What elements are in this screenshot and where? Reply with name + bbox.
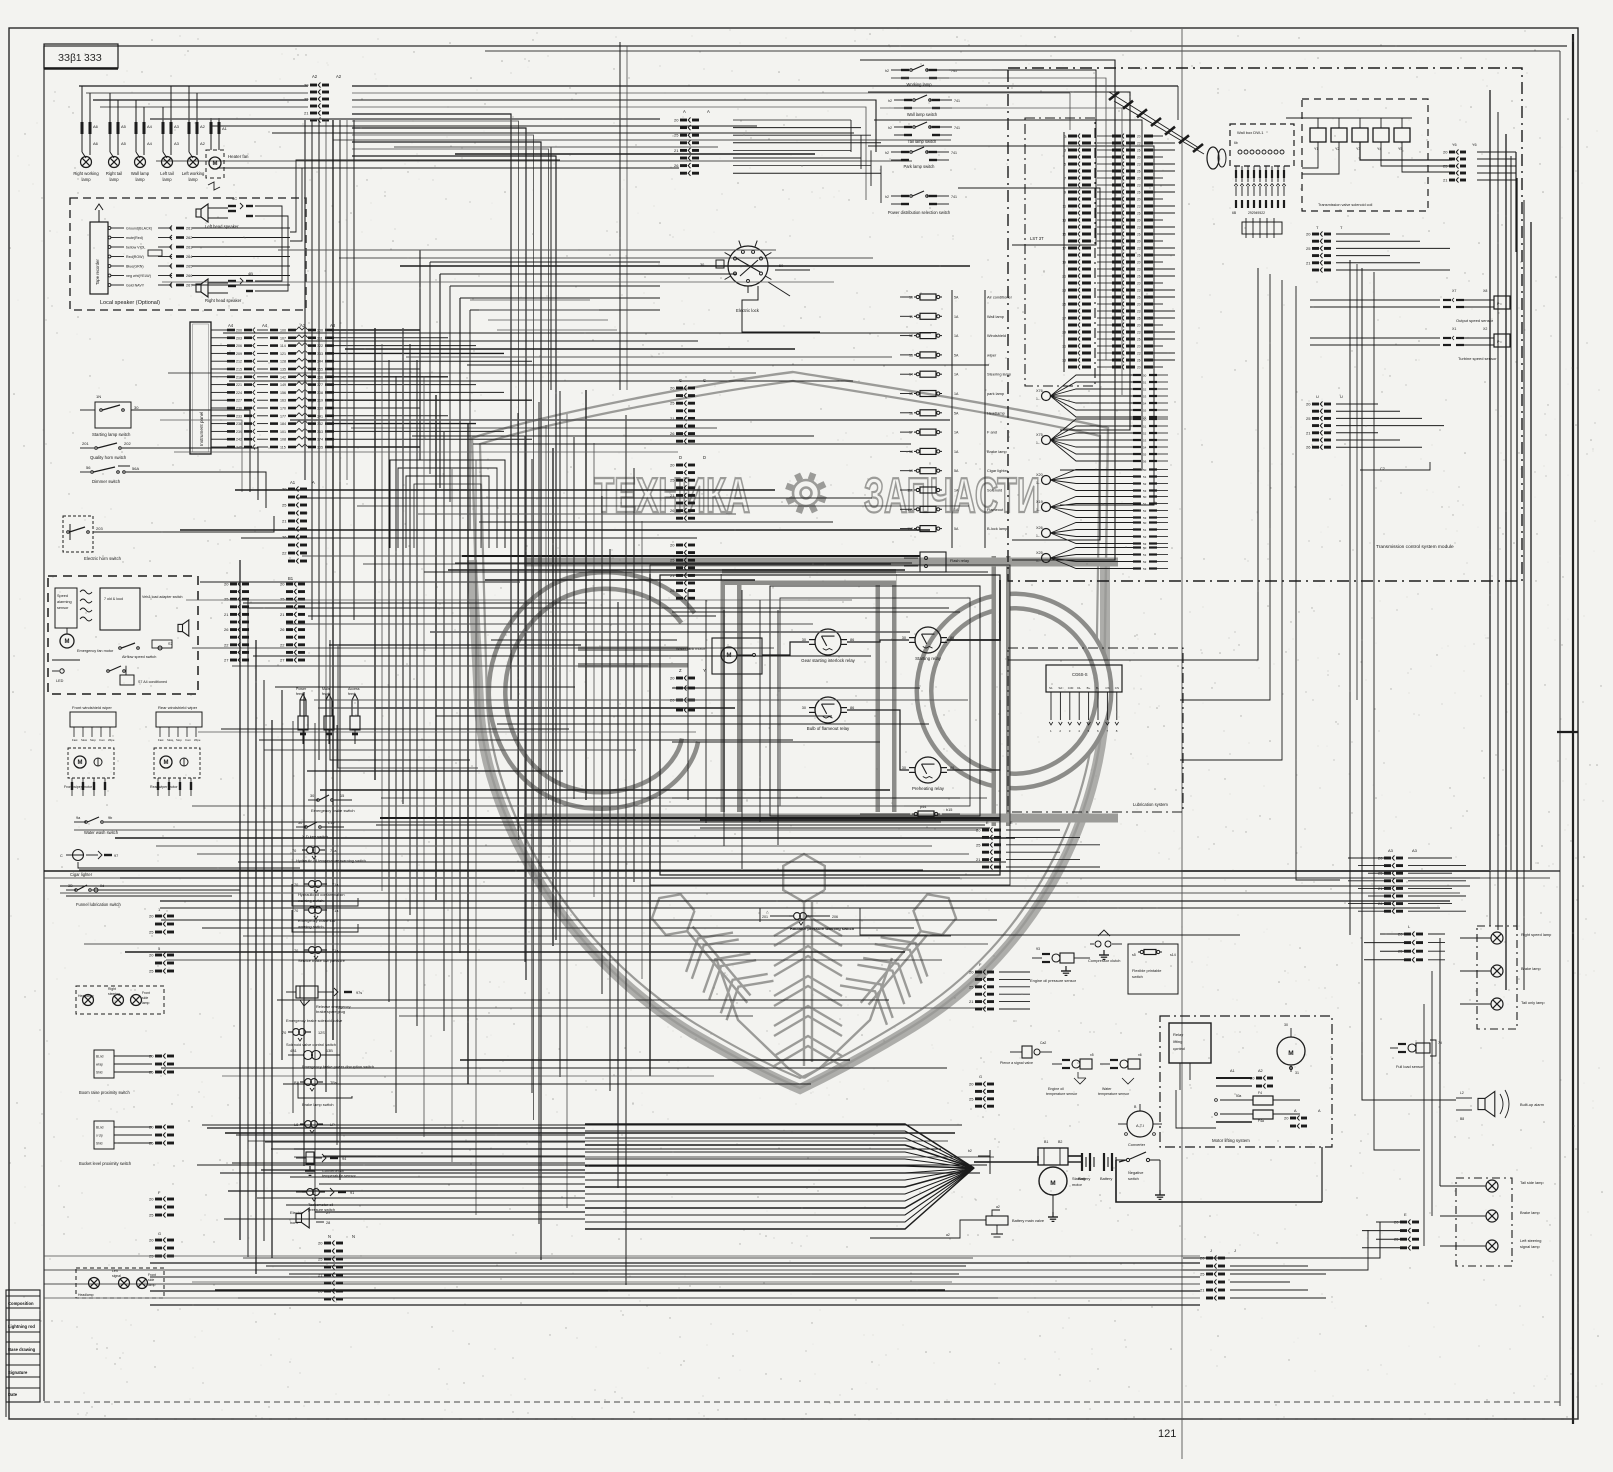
- svg-text:25: 25: [224, 597, 229, 602]
- svg-text:F4a: F4a: [1258, 1119, 1264, 1123]
- left head speaker: [196, 196, 272, 229]
- lamp: Wall lamp: [131, 100, 153, 182]
- svg-text:Wipe: Wipe: [108, 738, 115, 742]
- flexible printable switch: [1128, 944, 1178, 994]
- svg-text:Composition: Composition: [8, 1301, 34, 1306]
- svg-text:22: 22: [280, 642, 285, 647]
- svg-text:21: 21: [674, 148, 679, 153]
- switch: Park lamp switch: [885, 147, 957, 169]
- svg-text:212: 212: [236, 360, 242, 364]
- svg-text:25: 25: [969, 1096, 974, 1101]
- sensor: Hydraulic oil contamination: [292, 881, 358, 906]
- svg-text:26: 26: [1137, 295, 1141, 299]
- svg-text:Full load sensor: Full load sensor: [1396, 1064, 1424, 1069]
- svg-text:h2: h2: [885, 151, 889, 155]
- svg-text:25: 25: [1306, 246, 1311, 251]
- svg-text:switch: switch: [1132, 974, 1143, 979]
- svg-text:30: 30: [134, 405, 139, 410]
- svg-text:CS: CS: [1115, 686, 1119, 690]
- cigar lighter: [60, 850, 300, 878]
- svg-text:26: 26: [1137, 253, 1141, 257]
- svg-text:Left steering: Left steering: [1520, 1238, 1541, 1243]
- svg-text:52: 52: [1143, 387, 1147, 391]
- svg-text:Stop: Stop: [176, 738, 182, 742]
- svg-text:Service brake low pressure: Service brake low pressure: [298, 958, 345, 963]
- svg-text:292949522: 292949522: [1248, 211, 1265, 215]
- svg-text:park lamp: park lamp: [987, 391, 1004, 396]
- full load sensor: [1390, 1040, 1442, 1069]
- svg-text:352: 352: [317, 422, 323, 426]
- lamp: Right working lamp: [73, 86, 99, 182]
- svg-text:17: 17: [909, 431, 913, 435]
- svg-text:1A: 1A: [954, 373, 959, 377]
- connector X26: [1036, 521, 1168, 546]
- svg-text:25: 25: [670, 558, 675, 563]
- built-up alarm horn: [1456, 1090, 1544, 1121]
- svg-text:Battery: Battery: [1078, 1176, 1090, 1181]
- alarm speaker: [168, 620, 189, 646]
- svg-text:28: 28: [326, 1221, 330, 1225]
- svg-text:Engine oil pressure sensor: Engine oil pressure sensor: [1030, 978, 1077, 983]
- airflow speed switch: [119, 640, 172, 659]
- CG6S-S grease block: [1046, 665, 1122, 733]
- dash-dot box right lamps upper: [1460, 926, 1551, 1029]
- svg-text:motor: motor: [1072, 1182, 1083, 1187]
- center-right connector stack F1: [969, 962, 1030, 1012]
- svg-text:4C: 4C: [232, 196, 237, 201]
- svg-text:N: N: [352, 1234, 355, 1239]
- svg-text:1A: 1A: [954, 489, 959, 493]
- solenoid connector pair: [1443, 143, 1516, 252]
- wires from left switches to harness: [140, 410, 300, 896]
- turbine speed sensor: [1310, 327, 1510, 361]
- svg-text:Y6: Y6: [1472, 143, 1477, 147]
- relay box internal wiring: [672, 590, 960, 869]
- svg-text:mute(Red): mute(Red): [126, 236, 143, 240]
- svg-text:Wall lamp switch: Wall lamp switch: [907, 112, 938, 117]
- svg-text:Funnel lubrication switch: Funnel lubrication switch: [76, 902, 122, 907]
- dashed box: transmission control system module: [1008, 68, 1522, 581]
- svg-text:20: 20: [1443, 150, 1448, 155]
- svg-text:Blue(GRN): Blue(GRN): [126, 265, 144, 269]
- svg-text:Brake lamp switch: Brake lamp switch: [302, 1102, 334, 1107]
- svg-text:21: 21: [976, 857, 981, 862]
- pierce a signal valve: [1000, 1041, 1052, 1065]
- svg-text:23: 23: [1137, 330, 1141, 334]
- svg-text:Rear windshield wiper: Rear windshield wiper: [158, 705, 198, 710]
- svg-text:U: U: [1316, 394, 1319, 399]
- svg-text:15: 15: [909, 392, 913, 396]
- svg-text:BLnd: BLnd: [96, 1055, 104, 1059]
- svg-text:Motor lifting system: Motor lifting system: [1212, 1138, 1250, 1143]
- svg-text:Converter: Converter: [1128, 1142, 1146, 1147]
- svg-text:Brake lamp: Brake lamp: [1521, 966, 1541, 971]
- svg-text:14: 14: [909, 373, 913, 377]
- svg-text:1A: 1A: [954, 334, 959, 338]
- svg-text:Water wash switch: Water wash switch: [84, 830, 119, 835]
- svg-text:Headlamp: Headlamp: [78, 1293, 94, 1297]
- svg-text:741: 741: [951, 151, 957, 155]
- svg-text:9b: 9b: [108, 816, 112, 820]
- svg-text:A2: A2: [200, 141, 206, 146]
- svg-text:115: 115: [280, 446, 286, 450]
- svg-text:25: 25: [304, 97, 309, 102]
- svg-text:311: 311: [317, 336, 323, 340]
- svg-text:Cigar lighter: Cigar lighter: [70, 872, 93, 877]
- converter tachometer: [1118, 1104, 1162, 1147]
- svg-text:51: 51: [1143, 380, 1147, 384]
- svg-text:25: 25: [149, 1141, 154, 1146]
- svg-text:25: 25: [670, 478, 675, 483]
- svg-text:C30: C30: [1068, 686, 1074, 690]
- extra harness crossing wires center-left: [200, 582, 654, 1219]
- switch: Tail lamp switch: [888, 122, 960, 144]
- svg-text:52: 52: [1143, 431, 1147, 435]
- svg-text:B-: B-: [1096, 686, 1099, 690]
- svg-text:25: 25: [318, 1257, 323, 1262]
- svg-text:25: 25: [280, 597, 285, 602]
- svg-text:16: 16: [909, 411, 913, 415]
- svg-text:94: 94: [342, 1157, 346, 1161]
- staircase routing top-center: [420, 250, 660, 530]
- svg-text:25: 25: [1443, 164, 1448, 169]
- svg-text:10: 10: [909, 296, 913, 300]
- svg-text:242: 242: [236, 438, 242, 442]
- svg-text:93: 93: [1036, 947, 1040, 951]
- sensor: Hydraulic oil temperature warning switch: [292, 847, 366, 863]
- bottom connector pair F: [149, 1190, 174, 1218]
- svg-text:Solenoid: Solenoid: [987, 488, 1002, 493]
- engine oil temperature sensor: [1046, 1053, 1094, 1096]
- svg-text:Battery main valve: Battery main valve: [1012, 1218, 1044, 1223]
- switch: Power distribution selection switch: [885, 191, 957, 215]
- svg-text:25: 25: [149, 1070, 154, 1075]
- lamp: Left working lamp: [182, 86, 206, 182]
- svg-text:A4: A4: [228, 323, 234, 328]
- svg-text:Wipe: Wipe: [194, 738, 201, 742]
- svg-text:121: 121: [280, 352, 286, 356]
- svg-text:Ca2: Ca2: [1040, 1041, 1046, 1045]
- svg-text:20: 20: [1137, 323, 1141, 327]
- svg-text:bellow VIOL: bellow VIOL: [126, 246, 145, 250]
- svg-text:lamp: lamp: [81, 177, 91, 182]
- svg-text:741: 741: [951, 195, 957, 199]
- svg-text:A4: A4: [262, 323, 268, 328]
- svg-text:19: 19: [909, 469, 913, 473]
- svg-text:1A: 1A: [954, 315, 959, 319]
- svg-text:25: 25: [670, 401, 675, 406]
- svg-text:Flameout: Flameout: [987, 507, 1004, 512]
- svg-text:E: E: [1010, 820, 1013, 825]
- svg-text:23: 23: [1137, 225, 1141, 229]
- svg-text:6B: 6B: [1232, 211, 1237, 215]
- sheet fold line: [1181, 29, 1183, 1459]
- svg-text:55: 55: [1143, 408, 1147, 412]
- output speed sensor: [1310, 289, 1510, 323]
- svg-text:26: 26: [1137, 232, 1141, 236]
- svg-text:S1: S1: [1049, 686, 1053, 690]
- svg-text:26: 26: [280, 627, 285, 632]
- svg-text:Right speed lamp: Right speed lamp: [1521, 932, 1551, 937]
- svg-text:Lightning rod: Lightning rod: [8, 1324, 35, 1329]
- svg-text:21: 21: [1443, 178, 1448, 183]
- svg-text:Front wiper motor: Front wiper motor: [64, 785, 93, 789]
- connector pair S mid-low2: [149, 946, 174, 974]
- svg-text:20: 20: [1137, 260, 1141, 264]
- svg-text:Z: Z: [679, 668, 682, 673]
- svg-text:G: G: [158, 1231, 161, 1236]
- svg-text:23: 23: [1137, 246, 1141, 250]
- right steering lamp cluster: [76, 986, 164, 1014]
- svg-text:B8: B8: [1460, 1117, 1464, 1121]
- svg-text:51: 51: [1143, 475, 1147, 479]
- connector X19: [1036, 495, 1168, 520]
- svg-text:53: 53: [1143, 438, 1147, 442]
- svg-text:Engine oil: Engine oil: [1048, 1087, 1064, 1091]
- svg-text:signal: signal: [112, 1274, 121, 1278]
- svg-text:741: 741: [954, 99, 960, 103]
- svg-text:Tail only lamp: Tail only lamp: [1521, 1000, 1545, 1005]
- dash-dot box: motor lifting system: [1160, 1016, 1332, 1147]
- svg-text:333: 333: [317, 352, 323, 356]
- svg-text:M: M: [164, 760, 169, 766]
- svg-text:224: 224: [236, 391, 242, 395]
- svg-text:20: 20: [1250, 1076, 1255, 1081]
- svg-text:steering: steering: [108, 992, 120, 996]
- svg-text:Flash relay: Flash relay: [950, 558, 969, 563]
- instrument panel connector field: [211, 323, 532, 450]
- svg-text:5A: 5A: [954, 296, 959, 300]
- svg-text:Date: Date: [8, 1392, 18, 1397]
- svg-text:53: 53: [1143, 394, 1147, 398]
- svg-text:26: 26: [1137, 211, 1141, 215]
- dashed box: speed alarming system: [48, 576, 198, 694]
- svg-text:Quality horn switch: Quality horn switch: [90, 455, 127, 460]
- svg-text:J: J: [1210, 1248, 1212, 1253]
- svg-text:21: 21: [280, 612, 285, 617]
- svg-text:Working lamp: Working lamp: [907, 82, 933, 87]
- svg-text:M: M: [65, 639, 70, 645]
- svg-text:Battery: Battery: [1100, 1176, 1112, 1181]
- svg-text:h2: h2: [888, 126, 892, 130]
- twisted diagonal cable: [1109, 92, 1204, 154]
- svg-text:S2: S2: [1058, 686, 1062, 690]
- Front windshield wiper: [64, 705, 116, 796]
- watermark: dealer logo: [472, 372, 1118, 1089]
- svg-text:Speed: Speed: [57, 594, 68, 598]
- svg-text:156: 156: [280, 391, 286, 395]
- svg-text:Headlamp: Headlamp: [78, 994, 94, 998]
- svg-text:21: 21: [670, 493, 675, 498]
- connector stack A1/A2 left-mid: [282, 480, 315, 564]
- svg-text:Dimmer switch: Dimmer switch: [92, 479, 121, 484]
- svg-text:Transmission valve solenoid co: Transmission valve solenoid coil: [1318, 203, 1372, 207]
- svg-text:128: 128: [280, 360, 286, 364]
- left harness vertical bundle: [240, 560, 272, 1274]
- svg-text:53: 53: [1143, 516, 1147, 520]
- svg-text:Tape recorder: Tape recorder: [95, 259, 100, 285]
- emergency fan motor: [52, 628, 114, 660]
- svg-text:21: 21: [1306, 260, 1311, 265]
- speed alarming sensor: [55, 588, 183, 630]
- right mid connector stack T: [1306, 225, 1450, 273]
- fuse box column: [900, 290, 1013, 548]
- batteries: [1068, 1153, 1116, 1181]
- svg-text:20: 20: [149, 953, 154, 958]
- lifting connector pair A1: [1216, 1069, 1273, 1089]
- relay cluster routing loops: [650, 565, 1010, 885]
- svg-text:108: 108: [280, 438, 286, 442]
- svg-text:52: 52: [1143, 482, 1147, 486]
- svg-text:B-lock lamp: B-lock lamp: [987, 526, 1007, 531]
- svg-text:Windshield: Windshield: [987, 333, 1006, 338]
- center-right connector stack E1: [976, 820, 1100, 870]
- svg-text:20: 20: [1306, 402, 1311, 407]
- electric horn: [290, 1208, 330, 1228]
- svg-text:Headlamp: Headlamp: [987, 410, 1005, 415]
- svg-text:p44: p44: [920, 805, 926, 809]
- svg-text:23: 23: [1137, 267, 1141, 271]
- svg-text:Cigar lighter: Cigar lighter: [987, 468, 1009, 473]
- svg-text:25: 25: [1306, 416, 1311, 421]
- ellipse cable bundle end: [1207, 147, 1226, 169]
- svg-text:A1: A1: [290, 480, 296, 485]
- svg-text:Gear starting interlock relay: Gear starting interlock relay: [801, 658, 855, 663]
- right lamps lower connector: [1362, 1212, 1419, 1250]
- svg-text:Com: Com: [185, 738, 192, 742]
- svg-text:X7: X7: [1452, 289, 1456, 293]
- svg-text:201: 201: [82, 441, 89, 446]
- svg-text:Water: Water: [1102, 1087, 1112, 1091]
- svg-text:X75: X75: [1036, 433, 1043, 437]
- svg-text:21: 21: [282, 519, 287, 524]
- svg-text:26: 26: [670, 431, 675, 436]
- svg-text:341: 341: [317, 414, 323, 418]
- svg-text:Pierce a signal valve: Pierce a signal valve: [1000, 1061, 1033, 1065]
- svg-text:Bulb of flameout relay: Bulb of flameout relay: [807, 726, 850, 731]
- svg-text:21: 21: [224, 612, 229, 617]
- svg-text:1A: 1A: [954, 392, 959, 396]
- engine oil pressure sensor: [1030, 947, 1090, 983]
- bottom connector pair G: [149, 1231, 174, 1259]
- svg-text:20: 20: [149, 1238, 154, 1243]
- svg-text:sensor: sensor: [57, 606, 69, 610]
- svg-text:Starting lamp switch: Starting lamp switch: [92, 432, 131, 437]
- funnel lubrication switch: [66, 884, 140, 907]
- connector pair D center: [670, 455, 706, 521]
- bottom long buses: [44, 1256, 1200, 1305]
- feeder wires into bottom fan harness: [207, 1128, 585, 1219]
- bottom-left big connector stack: [318, 1234, 355, 1302]
- svg-text:A5: A5: [121, 141, 127, 146]
- svg-text:h2: h2: [888, 99, 892, 103]
- svg-text:26: 26: [1137, 190, 1141, 194]
- svg-text:206: 206: [832, 915, 838, 919]
- svg-text:Airflow speed switch: Airflow speed switch: [122, 655, 156, 659]
- svg-text:Red(ROW): Red(ROW): [126, 255, 144, 259]
- svg-text:A3: A3: [174, 141, 180, 146]
- svg-text:20: 20: [670, 676, 675, 681]
- svg-text:Com: Com: [99, 738, 106, 742]
- svg-text:203: 203: [236, 336, 242, 340]
- svg-text:20: 20: [149, 1197, 154, 1202]
- svg-text:s14: s14: [1170, 953, 1176, 957]
- connector stack B2: [280, 576, 305, 663]
- svg-text:Turbine speed sensor: Turbine speed sensor: [1458, 356, 1497, 361]
- svg-text:Shld: Shld: [96, 1071, 103, 1075]
- svg-text:A: A: [683, 109, 686, 114]
- svg-text:25: 25: [149, 969, 154, 974]
- svg-text:25: 25: [149, 930, 154, 935]
- svg-text:Solenoid valve control switch: Solenoid valve control switch: [286, 1042, 336, 1047]
- svg-text:6b: 6b: [1234, 141, 1238, 145]
- svg-text:A2: A2: [336, 74, 342, 79]
- svg-text:o Up: o Up: [96, 1134, 103, 1138]
- svg-text:Fast: Fast: [158, 738, 164, 742]
- svg-text:Signature: Signature: [8, 1370, 28, 1375]
- right side routing wires: [990, 260, 1560, 1270]
- svg-text:N: N: [328, 1234, 331, 1239]
- svg-text:Boom raise proximity switch: Boom raise proximity switch: [79, 1090, 130, 1095]
- svg-text:b15: b15: [946, 808, 952, 812]
- svg-text:Fast: Fast: [72, 738, 78, 742]
- svg-text:Flexible printable: Flexible printable: [1132, 968, 1161, 973]
- svg-text:B2: B2: [1058, 1140, 1062, 1144]
- svg-text:23: 23: [1137, 309, 1141, 313]
- svg-text:lamp: lamp: [162, 177, 172, 182]
- dimmer switch: [80, 465, 150, 484]
- boom raise proximity switch: [79, 1050, 174, 1095]
- right frame centre tick: [1557, 731, 1578, 733]
- svg-text:363: 363: [317, 430, 323, 434]
- connector X75: [1036, 417, 1168, 463]
- svg-text:20: 20: [670, 386, 675, 391]
- svg-text:Emergency brake solenoid valve: Emergency brake solenoid valve: [286, 1018, 342, 1023]
- starting lamp switch: [80, 394, 150, 437]
- svg-text:LED: LED: [56, 679, 64, 683]
- svg-text:A3: A3: [174, 124, 180, 129]
- svg-text:s5: s5: [1132, 953, 1136, 957]
- svg-text:pressure switch: pressure switch: [308, 1207, 335, 1212]
- svg-text:D: D: [679, 455, 682, 460]
- lifting motor M: [1277, 1023, 1305, 1075]
- svg-text:Electric lock: Electric lock: [736, 308, 760, 313]
- svg-text:5A: 5A: [954, 353, 959, 357]
- ECU connector column (left pins): [1062, 132, 1091, 372]
- svg-text:20: 20: [1137, 239, 1141, 243]
- svg-text:Wall lamp: Wall lamp: [987, 314, 1004, 319]
- svg-text:A6: A6: [93, 141, 99, 146]
- solenoid valve control switch: [282, 1029, 336, 1047]
- sensor: Emergency brake low: [292, 907, 358, 932]
- svg-text:50: 50: [1143, 495, 1147, 499]
- svg-text:Instrument panel: Instrument panel: [199, 412, 204, 446]
- svg-text:26: 26: [670, 508, 675, 513]
- svg-text:20: 20: [1137, 176, 1141, 180]
- svg-text:1N: 1N: [96, 394, 101, 399]
- svg-text:26: 26: [1137, 169, 1141, 173]
- svg-text:Heater fan: Heater fan: [228, 154, 249, 159]
- svg-text:a2: a2: [996, 1205, 1000, 1209]
- svg-text:side: side: [142, 996, 148, 1000]
- svg-text:x6: x6: [1138, 1053, 1142, 1057]
- svg-text:50a: 50a: [1236, 1094, 1242, 1098]
- connector pair J/J mid-low: [149, 907, 174, 935]
- svg-text:signal lamp: signal lamp: [1520, 1244, 1540, 1249]
- svg-text:F and: F and: [987, 430, 997, 435]
- svg-text:X25: X25: [1036, 551, 1043, 555]
- svg-text:305: 305: [317, 446, 323, 450]
